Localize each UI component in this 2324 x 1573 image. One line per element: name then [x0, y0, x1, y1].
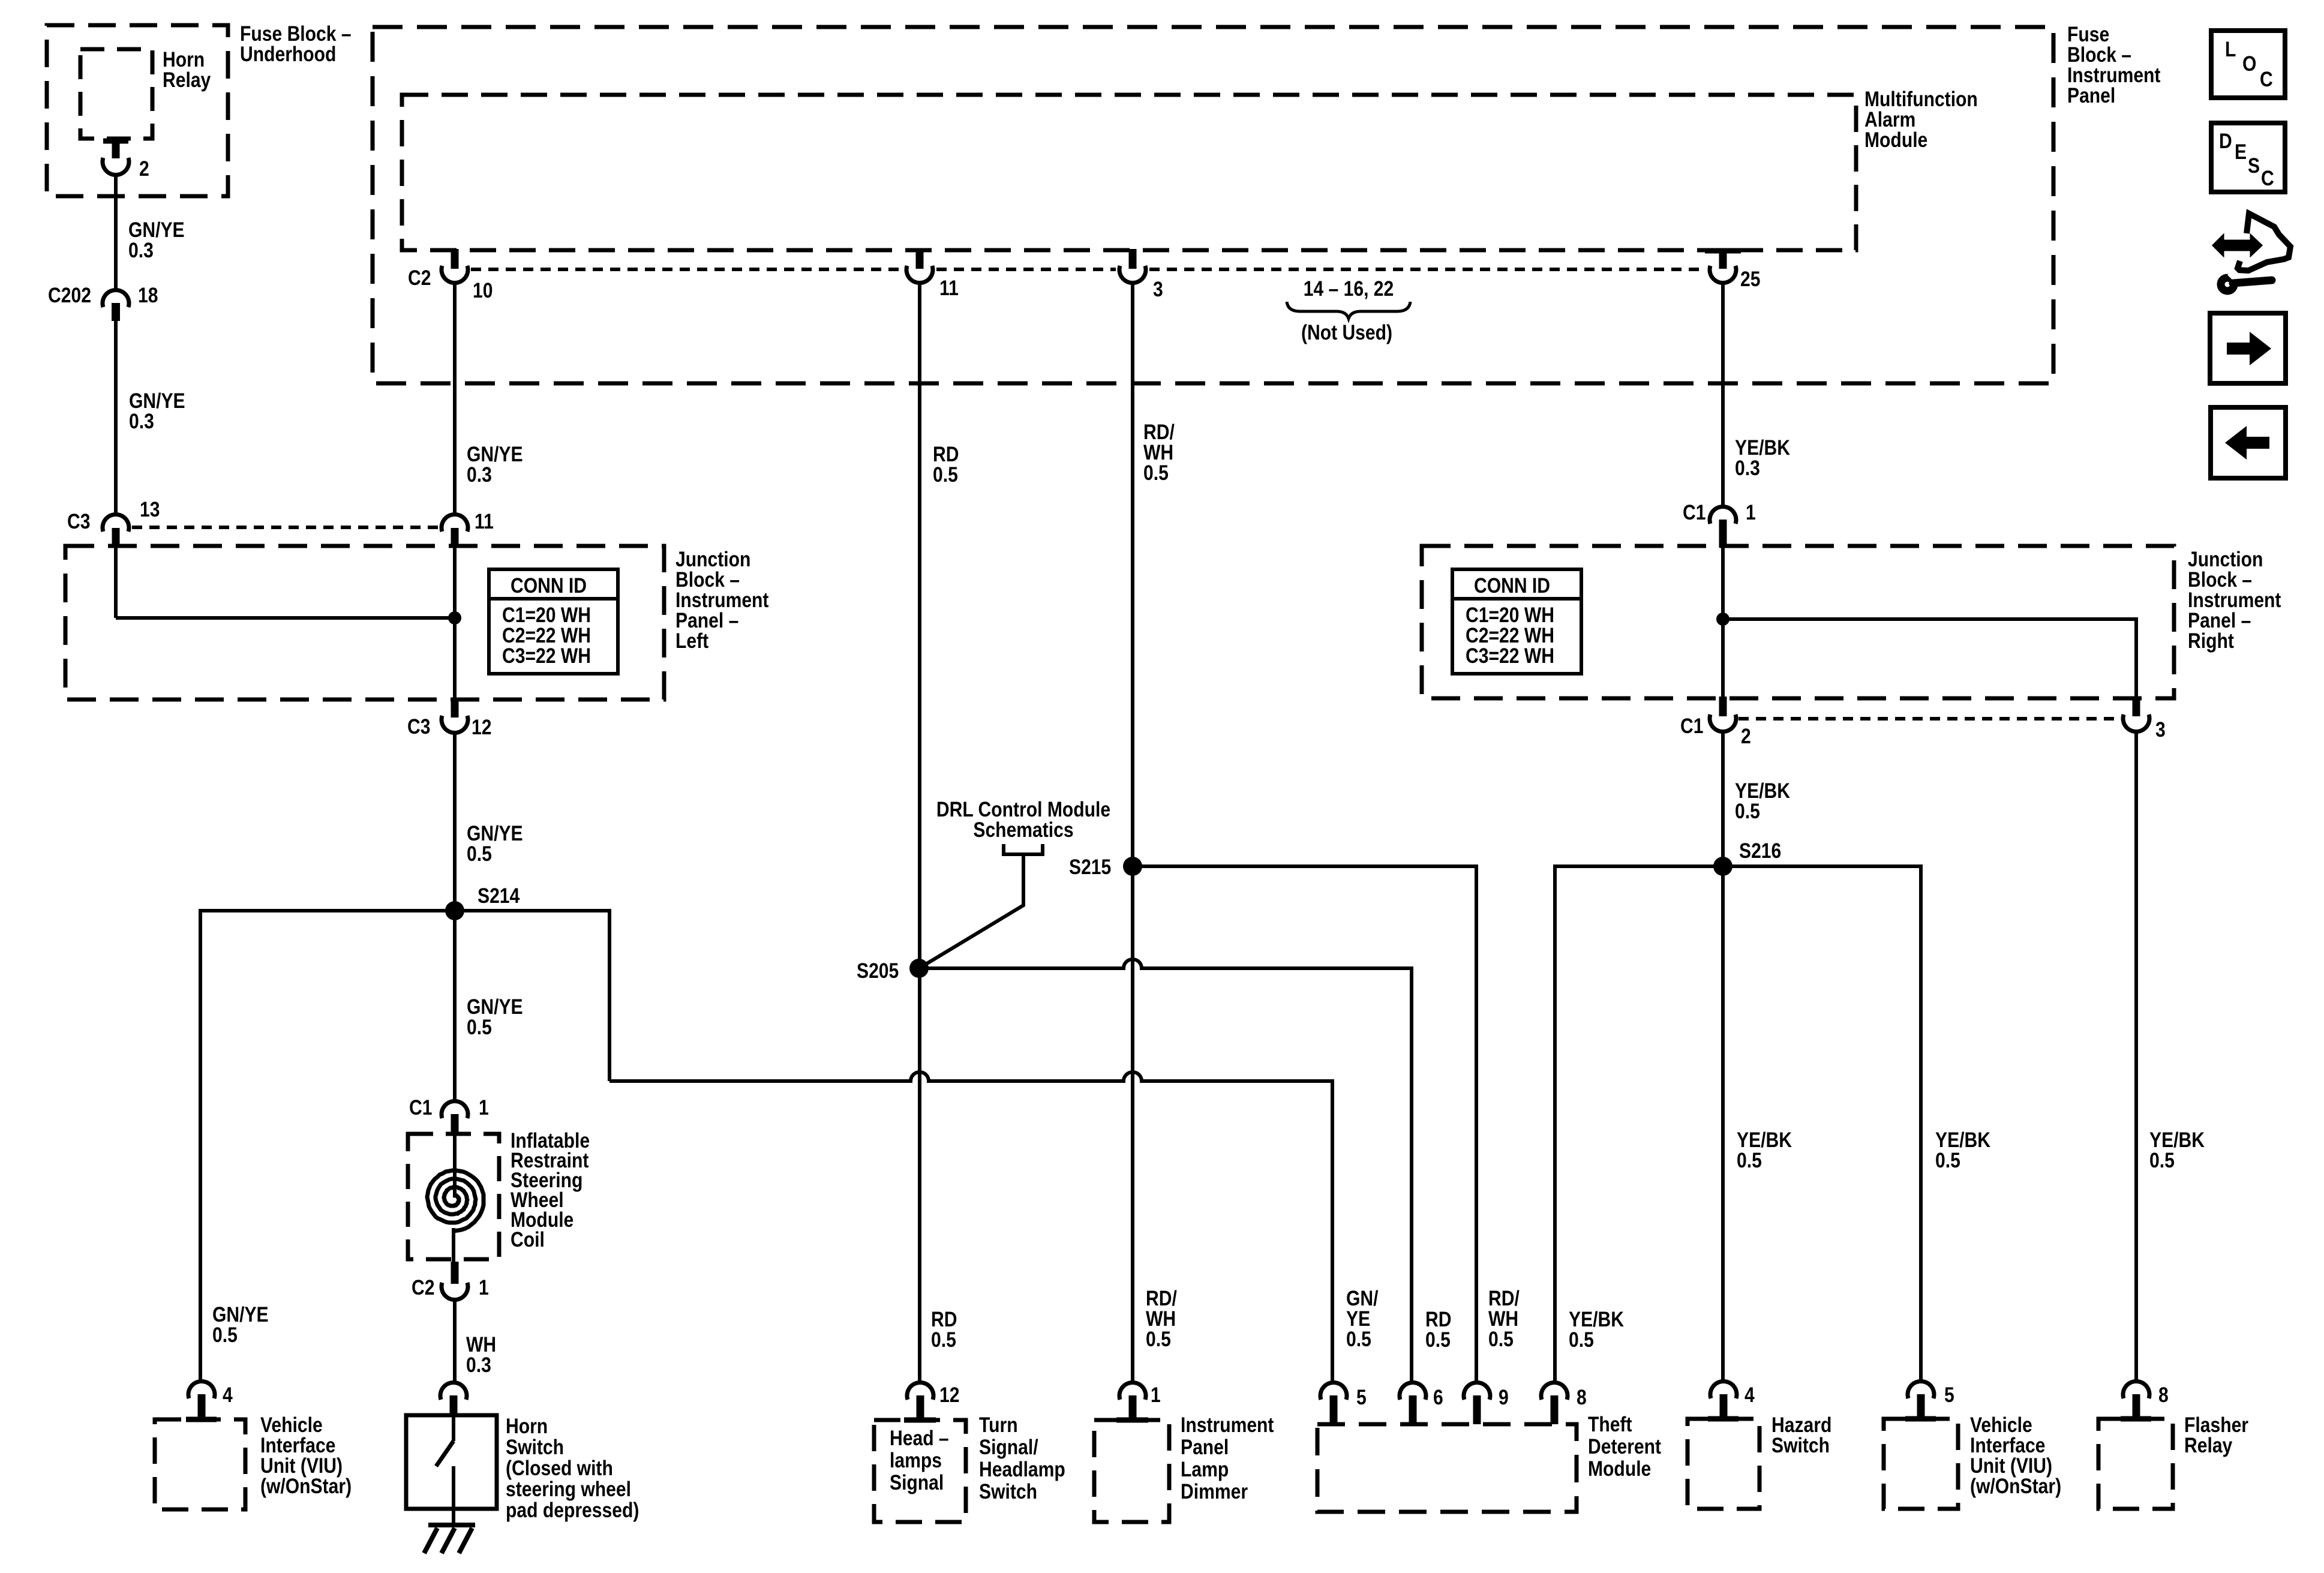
svg-text:S: S	[2248, 154, 2260, 178]
wire S214 left branch to VIU pin4	[200, 911, 455, 1383]
wire S215 right branch to pin9	[1133, 866, 1476, 1383]
pin 2 horn relay: T stub and cup	[103, 141, 129, 175]
svg-text:0.5: 0.5	[1425, 1328, 1451, 1352]
C2-1 coil exit: stub and cup	[442, 1262, 468, 1300]
theft pin8: dome and stub	[1541, 1382, 1568, 1424]
svg-text:9: 9	[1499, 1385, 1509, 1409]
wire junction right internal horizontal	[1723, 619, 2136, 701]
wire YEBK pin25 down to C1-1	[1721, 282, 1725, 508]
svg-text:3: 3	[2155, 718, 2166, 742]
svg-text:lamps: lamps	[890, 1448, 942, 1472]
C1-1 junction right entry: dome and stub	[1710, 506, 1736, 548]
svg-text:O: O	[2242, 52, 2256, 76]
svg-text:S216: S216	[1739, 839, 1781, 863]
svg-text:Module: Module	[1864, 128, 1927, 152]
pin 3 junction right exit: stub and cup	[2123, 697, 2149, 732]
svg-text:Headlamp: Headlamp	[979, 1457, 1065, 1481]
svg-text:C1: C1	[1680, 714, 1703, 738]
VIU right pin5: dome, stub, T-bar	[1905, 1381, 1936, 1419]
svg-text:S205: S205	[857, 959, 899, 983]
svg-text:Coil: Coil	[511, 1227, 545, 1251]
wire S216 to hazard pin4	[1721, 866, 1725, 1382]
icon DESC box	[2211, 123, 2285, 192]
svg-text:Left: Left	[675, 629, 708, 653]
VIU left pin4: dome, stub, T-bar	[186, 1381, 217, 1419]
svg-text:0.5: 0.5	[933, 463, 958, 487]
wire horn switch to ground	[452, 1509, 455, 1525]
flasher pin8: dome, stub, T-bar	[2121, 1381, 2151, 1419]
svg-text:0.3: 0.3	[129, 409, 154, 433]
svg-text:Instrument: Instrument	[1181, 1413, 1274, 1437]
svg-text:6: 6	[1433, 1385, 1443, 1409]
theft pin5: dome and stub	[1320, 1382, 1347, 1424]
wire C3-13 into junction block left	[114, 542, 118, 618]
not used brace	[1287, 302, 1410, 319]
svg-text:0.5: 0.5	[1735, 799, 1760, 823]
svg-text:C: C	[2261, 166, 2274, 190]
svg-text:Theft: Theft	[1588, 1412, 1632, 1436]
junction block instrument panel right box	[1422, 546, 2174, 698]
wire C1-1 into junction right	[1721, 533, 1725, 619]
wire junction pin3 to flasher pin8	[2134, 731, 2138, 1383]
svg-text:(Not Used): (Not Used)	[1301, 320, 1392, 344]
svg-text:C202: C202	[48, 283, 91, 307]
inflatable restraint coil box	[408, 1134, 499, 1259]
svg-text:1: 1	[479, 1275, 489, 1299]
wire S216 left branch to theft pin8	[1555, 866, 1723, 1382]
fuse block underhood box	[47, 25, 228, 196]
C1-1 coil entry: dome and stub	[442, 1101, 468, 1136]
svg-text:8: 8	[2158, 1383, 2169, 1407]
svg-text:0.5: 0.5	[1143, 461, 1169, 485]
svg-text:Horn: Horn	[506, 1414, 548, 1438]
svg-text:0.3: 0.3	[128, 238, 154, 262]
C3-13 junction entry: dome and stub	[103, 514, 129, 548]
multifunction alarm module box	[402, 95, 1856, 250]
svg-text:8: 8	[1577, 1385, 1587, 1409]
wire coil internal bottom	[452, 1228, 455, 1262]
pin 25 fuse block: T stub and cup	[1705, 251, 1741, 283]
svg-text:S215: S215	[1069, 855, 1111, 879]
svg-text:C1: C1	[409, 1095, 432, 1119]
svg-text:S214: S214	[478, 884, 520, 908]
wire S214 branch horizontal to pin5 with hops	[609, 1072, 1332, 1382]
wire RDWH pin3fb down to S215	[1131, 282, 1134, 866]
svg-text:Panel: Panel	[1181, 1435, 1229, 1459]
hazard switch box	[1688, 1419, 1759, 1509]
svg-text:Switch: Switch	[979, 1479, 1037, 1503]
ground symbol	[424, 1525, 475, 1553]
svg-text:12: 12	[939, 1383, 959, 1407]
headlamps pin12: dome, stub, T-bar	[904, 1382, 936, 1420]
connector dotted line C3-13 to 11 (junction left)	[132, 526, 439, 529]
wire S205 right branch to pin6 with hop	[919, 959, 1412, 1383]
svg-text:25: 25	[1740, 267, 1760, 291]
horn switch top contact	[452, 1415, 455, 1441]
svg-text:1: 1	[1151, 1383, 1161, 1407]
svg-text:Dimmer: Dimmer	[1181, 1479, 1248, 1503]
svg-text:11: 11	[939, 276, 959, 300]
svg-text:Signal: Signal	[890, 1470, 944, 1494]
svg-text:CONN ID: CONN ID	[511, 574, 587, 598]
svg-text:(w/OnStar): (w/OnStar)	[260, 1474, 352, 1498]
wire C3-12 to S214	[453, 732, 457, 911]
svg-text:13: 13	[140, 497, 160, 521]
svg-text:E: E	[2235, 140, 2247, 164]
svg-text:(Closed with: (Closed with	[506, 1456, 613, 1480]
svg-text:steering wheel: steering wheel	[506, 1477, 631, 1501]
svg-text:0.5: 0.5	[931, 1328, 956, 1352]
svg-text:C3=22 WH: C3=22 WH	[1466, 644, 1554, 668]
junction block instrument panel left box	[65, 546, 664, 700]
icon vehicle wrench	[2213, 214, 2290, 291]
svg-text:C2: C2	[412, 1275, 434, 1299]
svg-text:Deterent: Deterent	[1588, 1434, 1661, 1458]
svg-text:0.3: 0.3	[1735, 456, 1760, 480]
svg-text:4: 4	[1744, 1383, 1755, 1407]
hazard pin4: dome, stub, T-bar	[1708, 1381, 1739, 1419]
svg-text:(w/OnStar): (w/OnStar)	[1970, 1474, 2061, 1498]
connector C1 dotted line (junction right pins 2,3)	[1739, 717, 2120, 721]
svg-text:L: L	[2225, 37, 2236, 61]
C3-12 junction exit: stub and cup	[442, 698, 468, 733]
theft pin9: dome and stub	[1464, 1382, 1490, 1424]
icon right arrow box	[2210, 313, 2286, 383]
DRL pointer bracket	[1004, 844, 1043, 854]
svg-text:Right: Right	[2188, 629, 2234, 653]
splice S205	[909, 959, 929, 978]
svg-text:C: C	[2260, 67, 2273, 91]
splice S215	[1123, 857, 1142, 876]
svg-text:0.3: 0.3	[466, 1353, 491, 1377]
svg-text:Head –: Head –	[890, 1426, 949, 1450]
horn switch blade	[436, 1441, 454, 1466]
wire S205 to headlamps pin12	[918, 968, 921, 1383]
wire coil C2-1 stub zone to horn switch	[453, 1299, 457, 1383]
svg-text:Turn: Turn	[979, 1413, 1018, 1437]
svg-text:0.5: 0.5	[1569, 1328, 1594, 1352]
svg-text:Underhood: Underhood	[240, 42, 336, 66]
svg-text:4: 4	[223, 1383, 233, 1407]
wire C202 to C3-13	[114, 321, 118, 515]
svg-text:Relay: Relay	[163, 68, 211, 92]
horn relay box	[80, 49, 152, 139]
svg-text:0.5: 0.5	[467, 1015, 492, 1039]
svg-text:1: 1	[1746, 500, 1756, 524]
horn switch box	[406, 1415, 497, 1509]
theft deterent module box	[1317, 1424, 1577, 1512]
svg-text:0.5: 0.5	[2149, 1148, 2175, 1172]
instrument panel lamp dimmer box	[1094, 1420, 1169, 1522]
svg-text:C1: C1	[1683, 500, 1706, 524]
wire S215 to dimmer pin1	[1131, 866, 1134, 1383]
coil spiral	[427, 1170, 484, 1231]
icon left arrow box	[2211, 407, 2286, 478]
junction dot right block	[1716, 613, 1730, 626]
svg-text:18: 18	[138, 283, 158, 307]
C1-2 junction right exit: stub and cup	[1710, 697, 1736, 732]
svg-text:0.5: 0.5	[1935, 1148, 1960, 1172]
splice S214	[445, 901, 464, 920]
svg-text:5: 5	[1356, 1385, 1367, 1409]
headlamps signal box	[874, 1420, 966, 1522]
svg-text:5: 5	[1944, 1383, 1954, 1407]
junction dots	[445, 611, 1733, 978]
dimmer pin1: dome, stub, T-bar	[1116, 1382, 1148, 1420]
svg-text:Panel: Panel	[2067, 83, 2115, 107]
svg-text:0.5: 0.5	[1146, 1327, 1171, 1351]
wire S214 right branch	[455, 911, 609, 1081]
svg-text:0.5: 0.5	[1488, 1327, 1514, 1351]
svg-text:12: 12	[472, 715, 491, 739]
wire junction right down to C1-2	[1721, 619, 1725, 701]
theft pin6: dome and stub	[1400, 1382, 1426, 1424]
svg-text:Schematics: Schematics	[973, 818, 1073, 842]
svg-text:D: D	[2219, 129, 2232, 153]
splice S216	[1713, 857, 1733, 876]
svg-text:Relay: Relay	[2184, 1433, 2232, 1457]
fuse block instrument panel box	[373, 27, 2053, 383]
svg-text:11: 11	[475, 509, 494, 533]
svg-text:0.5: 0.5	[1737, 1148, 1762, 1172]
svg-text:C2: C2	[408, 266, 431, 290]
wire junction block left internal horizontal	[116, 616, 455, 620]
svg-text:0.5: 0.5	[212, 1323, 238, 1347]
C202 inline connector: dome and stub	[103, 290, 129, 321]
icon LOC box	[2211, 31, 2285, 98]
wire C1-2 to S216	[1721, 731, 1725, 866]
pin 3 fuse block: stub and cup	[1119, 249, 1146, 283]
svg-text:C3=22 WH: C3=22 WH	[502, 644, 591, 668]
vehicle interface unit right box	[1884, 1419, 1958, 1509]
CONN ID table right	[1452, 569, 1581, 674]
junction dot left block	[448, 611, 461, 625]
wire S214 to coil C1-1	[453, 911, 457, 1101]
DRL pointer line	[919, 854, 1023, 968]
wire horn relay pin2 to C202	[114, 174, 118, 290]
svg-text:CONN ID: CONN ID	[1474, 574, 1550, 598]
svg-text:Switch: Switch	[506, 1435, 564, 1459]
svg-text:0.5: 0.5	[1346, 1327, 1371, 1351]
CONN ID table left	[489, 569, 618, 674]
svg-text:pad depressed): pad depressed)	[506, 1498, 639, 1522]
horn switch lower contact	[452, 1466, 455, 1509]
wire coil internal top	[453, 1136, 457, 1197]
svg-text:2: 2	[139, 157, 149, 181]
svg-text:0.3: 0.3	[467, 463, 492, 487]
pin 11 junction entry: dome and stub	[442, 514, 468, 548]
pin 10 fuse block: stub and cup	[442, 249, 468, 283]
svg-text:C3: C3	[407, 715, 430, 739]
wire pin10 down to junction pin11	[453, 282, 457, 515]
pin 11 fuse block: stub and cup	[906, 249, 933, 283]
horn switch connector: dome and stub	[440, 1382, 467, 1416]
svg-text:2: 2	[1741, 724, 1751, 748]
svg-text:0.5: 0.5	[467, 842, 492, 866]
wire RD pin11fb down to S205	[918, 282, 921, 968]
wire pin11 through junction block to C3-12	[453, 542, 457, 701]
wire S216 right branch to VIU right pin5	[1723, 866, 1921, 1382]
svg-text:Lamp: Lamp	[1181, 1457, 1229, 1481]
vehicle interface unit left box	[155, 1419, 245, 1509]
connector C2 dotted line (fuse block pins 10,11,3,25)	[471, 268, 1706, 271]
svg-text:1: 1	[479, 1095, 489, 1119]
connector pin symbols	[103, 141, 2151, 1424]
svg-text:Module: Module	[1588, 1457, 1651, 1481]
svg-text:Signal/: Signal/	[979, 1435, 1038, 1459]
svg-text:10: 10	[473, 278, 493, 302]
svg-text:14 – 16, 22: 14 – 16, 22	[1304, 277, 1394, 301]
flasher relay box	[2098, 1419, 2173, 1509]
svg-text:3: 3	[1153, 277, 1163, 301]
svg-text:C3: C3	[67, 509, 90, 533]
svg-text:Switch: Switch	[1771, 1433, 1830, 1457]
